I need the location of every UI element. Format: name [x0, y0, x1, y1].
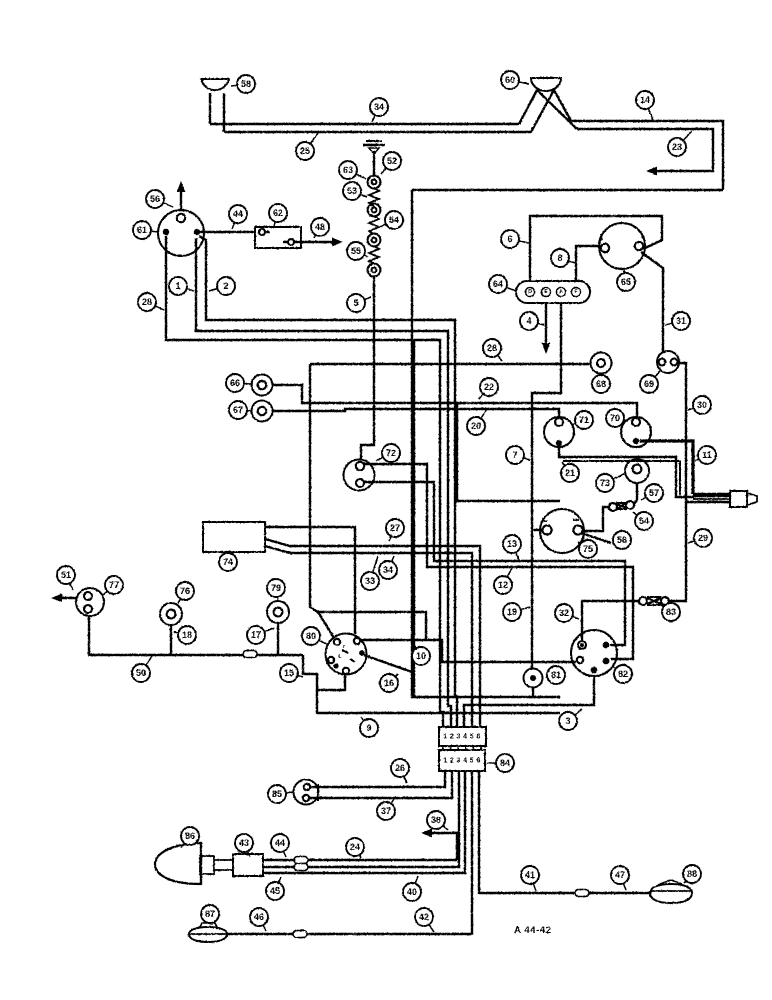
svg-text:6: 6: [507, 234, 512, 244]
svg-text:48: 48: [315, 222, 325, 232]
wire 20: [273, 409, 559, 417]
svg-text:54: 54: [389, 215, 399, 225]
svg-text:56: 56: [150, 194, 160, 204]
svg-text:88: 88: [687, 869, 697, 879]
svg-text:43: 43: [239, 838, 249, 848]
wire 6: [530, 216, 662, 281]
wire 9: [317, 690, 560, 713]
svg-text:42: 42: [419, 912, 429, 922]
wire 16: [364, 655, 412, 672]
trailer lamp 88: [650, 884, 692, 903]
bead connector: [243, 651, 257, 658]
tail lamp 87: [189, 927, 227, 942]
lamp 76: [160, 603, 182, 625]
svg-text:8: 8: [557, 253, 562, 263]
svg-text:85: 85: [272, 789, 282, 799]
svg-text:1 2 3 4 5 6: 1 2 3 4 5 6: [443, 734, 480, 741]
wire 38: [428, 833, 457, 860]
wire 2: [199, 236, 457, 727]
plug connector: [730, 491, 747, 507]
svg-text:30: 30: [697, 400, 707, 410]
svg-text:34: 34: [374, 102, 384, 112]
svg-text:14: 14: [640, 95, 650, 105]
wire 4: [545, 303, 547, 346]
svg-text:47: 47: [615, 870, 625, 880]
svg-text:44: 44: [275, 838, 285, 848]
relay 71: [544, 417, 574, 447]
svg-text:A: A: [559, 289, 563, 295]
resistor block 62: [255, 227, 301, 248]
svg-text:60: 60: [505, 75, 515, 85]
svg-text:75: 75: [583, 544, 593, 554]
svg-text:32: 32: [559, 608, 569, 618]
bead connector: [294, 857, 308, 864]
bead connector: [575, 890, 589, 897]
lamp 66: [252, 375, 273, 396]
lamp 67: [252, 401, 273, 422]
svg-text:23: 23: [672, 142, 682, 152]
wire 21: [559, 446, 694, 497]
svg-text:41: 41: [525, 870, 535, 880]
svg-text:20: 20: [471, 421, 481, 431]
wire 27: [265, 527, 355, 634]
wire top rail: [412, 189, 723, 191]
wire 81 stub: [532, 688, 534, 697]
light switch 80: [326, 634, 367, 675]
svg-text:18: 18: [182, 630, 192, 640]
wire 31: [641, 252, 663, 351]
svg-text:71: 71: [579, 415, 589, 425]
svg-text:29: 29: [698, 533, 708, 543]
svg-text:86: 86: [185, 831, 195, 841]
wire 48: [294, 241, 332, 243]
wire 22: [273, 385, 637, 417]
svg-text:15: 15: [284, 668, 294, 678]
svg-text:56: 56: [617, 535, 627, 545]
svg-text:1: 1: [175, 281, 180, 291]
lamp 79: [267, 601, 289, 623]
wire box left vertical: [310, 364, 426, 640]
wire 34 pair: [265, 546, 472, 727]
svg-text:58: 58: [241, 79, 251, 89]
bowtie connector 83: [639, 597, 647, 605]
ignition coil 72: [344, 460, 375, 491]
connector circle: [368, 204, 381, 217]
lamp 85: [294, 780, 319, 805]
svg-text:1 2 3 4 5 6: 1 2 3 4 5 6: [443, 758, 480, 765]
svg-text:7: 7: [512, 450, 517, 460]
svg-text:21: 21: [565, 468, 575, 478]
svg-text:55: 55: [351, 246, 361, 256]
svg-text:11: 11: [702, 450, 712, 460]
gauge 68: [591, 353, 612, 374]
wire 41: [479, 771, 651, 893]
svg-text:84: 84: [500, 758, 510, 768]
svg-text:83: 83: [666, 607, 676, 617]
svg-text:F: F: [574, 289, 577, 295]
svg-text:73: 73: [600, 478, 610, 488]
wire 45: [263, 771, 459, 867]
svg-text:27: 27: [390, 523, 400, 533]
svg-text:67: 67: [233, 405, 243, 415]
fuel gauge 75: [540, 509, 584, 553]
wire 51: [58, 597, 76, 599]
svg-text:82: 82: [618, 669, 628, 679]
wire 5: [361, 276, 374, 459]
ground symbol: [366, 140, 382, 142]
wire 25: [224, 131, 531, 133]
connector circle: [368, 234, 381, 247]
wire 18: [170, 625, 172, 654]
bead connector: [294, 864, 308, 871]
wire 40: [263, 771, 465, 873]
dash unit 74: [203, 522, 265, 552]
wire 29: [669, 502, 686, 601]
svg-text:61: 61: [137, 225, 147, 235]
svg-text:70: 70: [610, 413, 620, 423]
svg-text:57: 57: [649, 488, 659, 498]
svg-text:9: 9: [366, 723, 371, 733]
svg-text:10: 10: [416, 651, 426, 661]
connector circle: [368, 264, 381, 277]
svg-text:L: L: [338, 654, 341, 660]
svg-text:12: 12: [498, 580, 508, 590]
wire main harness vertical: [412, 190, 560, 697]
wire 17: [277, 623, 279, 654]
wire 42: [228, 771, 472, 934]
relay 70: [621, 417, 651, 447]
svg-text:68: 68: [596, 379, 606, 389]
svg-text:44: 44: [233, 209, 243, 219]
wire 37: [309, 771, 452, 798]
svg-text:37: 37: [381, 806, 391, 816]
ignition switch 82: [571, 630, 617, 676]
wire 14: [571, 121, 723, 190]
wire 10: [360, 640, 576, 662]
resistor 54: [369, 216, 379, 234]
wire harness vertical b: [413, 340, 415, 697]
wire 15: [303, 655, 345, 690]
svg-text:19: 19: [507, 607, 517, 617]
svg-text:62: 62: [273, 208, 283, 218]
svg-text:17: 17: [251, 630, 261, 640]
svg-text:A 44-42: A 44-42: [514, 925, 552, 936]
bead connector: [293, 931, 307, 938]
svg-text:31: 31: [676, 316, 686, 326]
connector pins: [442, 746, 444, 750]
svg-text:16: 16: [384, 678, 394, 688]
svg-text:53: 53: [347, 186, 357, 196]
resistor 53: [369, 188, 379, 206]
wire 1: [196, 238, 451, 727]
wire to gauge 68: [310, 363, 590, 365]
svg-text:81: 81: [551, 670, 561, 680]
svg-text:33: 33: [365, 576, 375, 586]
horn 58: [201, 79, 229, 90]
svg-text:r: r: [343, 644, 345, 650]
svg-text:46: 46: [254, 912, 264, 922]
wire 8: [576, 246, 601, 281]
svg-text:28: 28: [487, 343, 497, 353]
wire row 501: [457, 403, 560, 501]
svg-text:5: 5: [353, 298, 358, 308]
headlamp 86: [155, 843, 201, 884]
svg-text:79: 79: [271, 583, 281, 593]
wire 26: [310, 771, 445, 787]
svg-text:65: 65: [621, 277, 631, 287]
bowtie connector 54: [609, 503, 617, 511]
wire 11: [640, 441, 693, 494]
svg-text:87: 87: [205, 909, 215, 919]
wire 44: [200, 231, 255, 233]
svg-text:54: 54: [639, 516, 649, 526]
connector block lower: [439, 750, 485, 771]
callout labels: [231, 75, 255, 93]
wire crossing: [519, 90, 537, 124]
wire 50: [89, 616, 303, 655]
wire 28: [166, 236, 443, 727]
svg-text:77: 77: [109, 580, 119, 590]
connector block upper: [439, 727, 486, 746]
svg-text:D: D: [528, 289, 532, 295]
svg-text:50: 50: [136, 668, 146, 678]
switch 61: [158, 210, 204, 256]
wire 30: [679, 363, 730, 502]
svg-text:28: 28: [142, 297, 152, 307]
wire 57: [634, 483, 637, 504]
connector 69: [657, 351, 679, 373]
horn button 60: [531, 78, 561, 91]
svg-text:3: 3: [565, 716, 570, 726]
svg-text:76: 76: [180, 586, 190, 596]
gauge 73: [625, 459, 649, 483]
generator 65: [599, 223, 645, 269]
wire 56 stub: [581, 533, 611, 543]
svg-text:64: 64: [493, 279, 503, 289]
svg-text:69: 69: [644, 379, 654, 389]
breaker 77: [76, 588, 104, 616]
svg-text:45: 45: [270, 886, 280, 896]
svg-text:40: 40: [407, 887, 417, 897]
resistor 55: [369, 246, 379, 264]
svg-text:22: 22: [484, 382, 494, 392]
svg-text:63: 63: [343, 165, 353, 175]
regulator 64: [516, 281, 590, 303]
svg-text:74: 74: [223, 557, 233, 567]
wire 24: [263, 859, 457, 861]
svg-text:80: 80: [306, 631, 316, 641]
svg-text:38: 38: [431, 815, 441, 825]
arrow up 56: [180, 188, 182, 211]
wire 32: [582, 601, 640, 641]
svg-text:34: 34: [383, 565, 393, 575]
svg-text:4: 4: [526, 316, 531, 326]
wire coil 72 out: [364, 464, 633, 659]
svg-text:2: 2: [223, 281, 228, 291]
svg-text:26: 26: [395, 763, 405, 773]
wire gauge 75 minus: [532, 529, 542, 531]
wire 3: [464, 676, 594, 727]
wire bowtie to gauge 75: [583, 507, 609, 531]
svg-text:51: 51: [61, 570, 71, 580]
svg-text:25: 25: [300, 146, 310, 156]
svg-text:52: 52: [387, 156, 397, 166]
svg-text:66: 66: [230, 378, 240, 388]
wire 33: [265, 539, 480, 727]
switch 81: [524, 669, 543, 688]
headlamp connector: [233, 854, 263, 876]
wire 7: [532, 303, 561, 669]
svg-text:24: 24: [350, 842, 360, 852]
wire 34: [210, 123, 519, 125]
svg-text:13: 13: [507, 539, 517, 549]
connector circle: [368, 176, 381, 189]
wire 23: [577, 129, 713, 171]
svg-text:72: 72: [386, 448, 396, 458]
